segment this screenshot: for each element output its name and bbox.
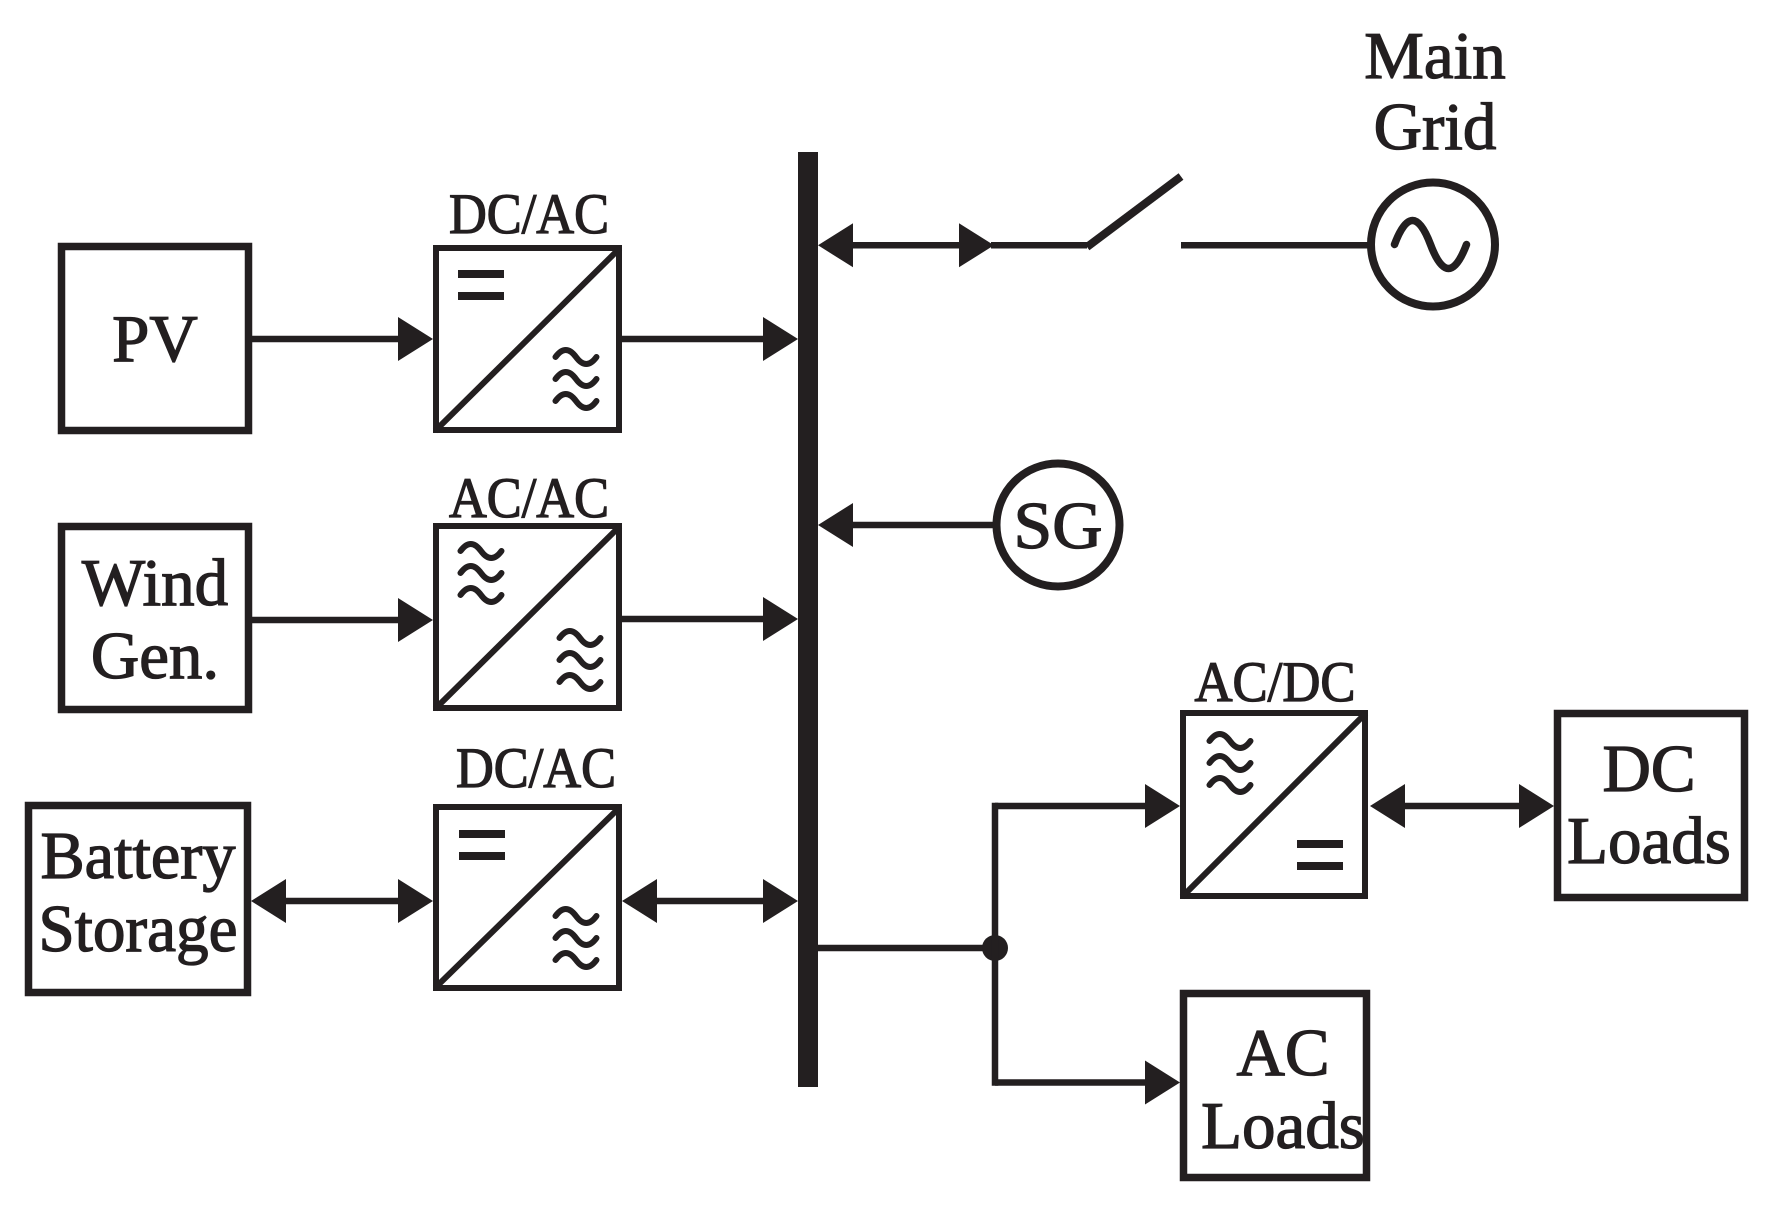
wire switch to Main Grid source — [1181, 242, 1374, 249]
wire junction to AC Loads — [995, 1079, 1147, 1086]
U2 diagonal — [435, 526, 620, 709]
arrowhead into U2 — [398, 598, 433, 642]
svg-text:Loads: Loads — [1567, 804, 1731, 878]
Main Grid sine symbol — [1395, 221, 1467, 269]
Battery Storage box — [29, 806, 248, 993]
arrowhead into bus (wind row) — [763, 597, 798, 641]
Battery Storage label — [39, 819, 238, 966]
wire Wind Gen to converter U2 — [252, 617, 400, 624]
wire junction to AC/DC converter U4 — [995, 803, 1147, 810]
arrowhead into AC Loads — [1145, 1061, 1180, 1105]
bidirectional wire U4 to DC Loads — [1404, 803, 1520, 810]
junction node dot — [982, 935, 1008, 961]
arrowhead into U4 right side — [1370, 784, 1405, 828]
arrowhead into bus (PV row) — [763, 317, 798, 361]
Wind Gen label — [82, 546, 228, 693]
DC Loads label — [1567, 732, 1731, 878]
Wind Gen box — [62, 527, 249, 710]
wire U2 to bus — [622, 616, 765, 623]
svg-text:AC: AC — [1236, 1016, 1329, 1090]
Main Grid label — [1364, 19, 1505, 164]
svg-text:DC: DC — [1602, 732, 1695, 806]
svg-text:AC/DC: AC/DC — [1195, 651, 1356, 714]
AC/AC converter U2 box — [436, 526, 619, 708]
arrowhead into bus (battery row) — [763, 879, 798, 923]
bidirectional wire U3 to bus — [655, 898, 765, 905]
bidirectional wire bus to grid switch — [851, 242, 961, 249]
arrowhead into DC Loads — [1519, 784, 1554, 828]
U1 AC symbol (waves) — [556, 350, 597, 408]
PV box — [62, 247, 249, 431]
svg-text:Storage: Storage — [39, 892, 238, 966]
U1 diagonal — [435, 248, 620, 431]
switch contact line — [991, 242, 1087, 249]
riser wire at junction — [992, 806, 999, 1083]
wire bus to loads junction — [818, 945, 995, 952]
arrowhead into bus (grid row) — [818, 223, 853, 267]
DC Loads box — [1558, 714, 1745, 898]
svg-text:PV: PV — [112, 302, 198, 376]
svg-text:Gen.: Gen. — [91, 619, 219, 693]
DC/AC converter U1 box — [436, 248, 619, 430]
U1 DC symbol (=) — [458, 270, 504, 300]
wire SG to bus — [851, 522, 996, 529]
switch blade — [1087, 177, 1181, 248]
U3 AC symbol (waves) — [556, 909, 597, 967]
arrowhead toward switch — [959, 223, 994, 267]
arrowhead into U3 — [398, 879, 433, 923]
AC/DC converter U4 box — [1183, 713, 1365, 896]
arrowhead into U1 — [398, 317, 433, 361]
U2 output AC symbol (waves bottom-right) — [560, 631, 601, 689]
wire PV to converter U1 — [252, 336, 400, 343]
svg-text:Loads: Loads — [1201, 1089, 1365, 1163]
AC bus bar — [798, 152, 818, 1087]
U4 AC symbol (waves top-left) — [1210, 734, 1251, 792]
U3 DC symbol (=) — [459, 830, 505, 860]
arrowhead into U4 — [1145, 784, 1180, 828]
AC Loads label — [1201, 1016, 1365, 1163]
arrowhead into bus (SG row) — [818, 503, 853, 547]
svg-text:SG: SG — [1014, 489, 1103, 563]
U3 diagonal — [435, 807, 620, 988]
svg-text:DC/AC: DC/AC — [449, 183, 609, 246]
U4 DC symbol (=) — [1297, 840, 1343, 870]
U2 input AC symbol (waves top-left) — [461, 544, 502, 602]
Main Grid AC source circle — [1371, 183, 1495, 307]
svg-text:Main: Main — [1364, 19, 1505, 93]
SG synchronous generator circle — [997, 464, 1120, 587]
svg-text:Battery: Battery — [41, 819, 236, 893]
U4 diagonal — [1182, 713, 1366, 897]
DC/AC converter U3 box — [436, 807, 619, 988]
AC Loads box — [1184, 994, 1367, 1178]
svg-text:Grid: Grid — [1374, 90, 1497, 164]
svg-text:DC/AC: DC/AC — [456, 737, 616, 800]
bidirectional wire Battery to U3 — [284, 898, 401, 905]
arrowhead into U3 right side — [622, 879, 657, 923]
wire U1 to bus — [622, 336, 765, 343]
svg-text:AC/AC: AC/AC — [449, 467, 609, 530]
arrowhead into Battery — [251, 879, 286, 923]
svg-text:Wind: Wind — [82, 546, 228, 620]
